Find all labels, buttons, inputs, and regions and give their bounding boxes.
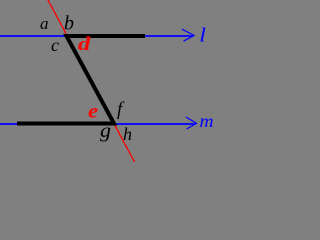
arrowhead of line m [186,117,197,129]
svg-text:b: b [64,13,74,35]
transversal (red) [48,0,135,162]
svg-text:g: g [100,119,111,142]
line m (blue) [0,123,196,125]
arrowhead of line l [182,29,194,41]
svg-text:h: h [123,124,132,144]
svg-text:m: m [200,112,214,132]
svg-text:e: e [88,100,98,123]
svg-text:d: d [78,33,91,55]
line l (blue) [0,35,194,37]
svg-text:c: c [51,35,59,55]
svg-text:a: a [40,14,49,33]
thick black Z highlight (segment on l, transversal segment, segment on m) [17,36,145,124]
svg-text:l: l [199,23,206,46]
